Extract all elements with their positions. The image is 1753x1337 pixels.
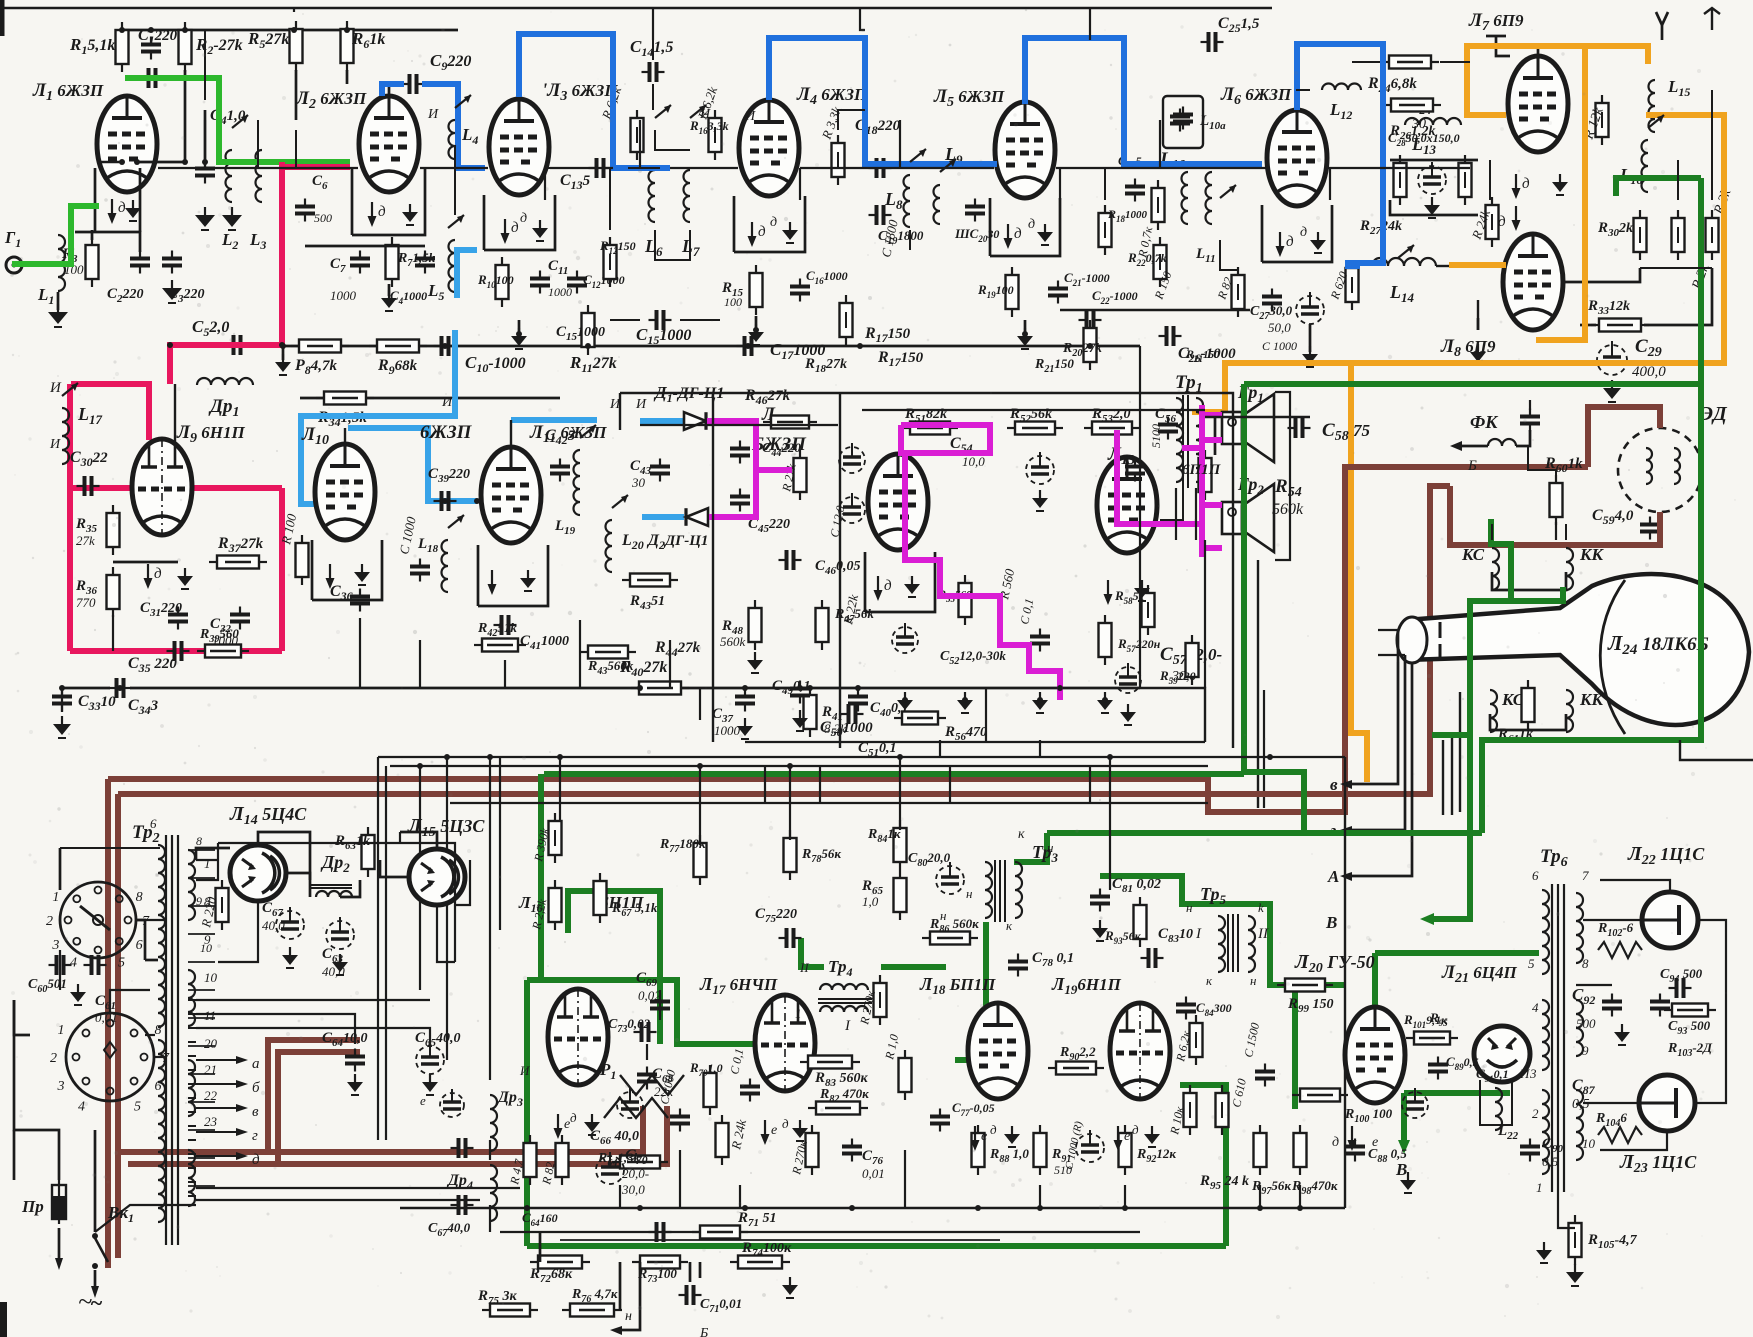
arrow д Л10: [329, 564, 331, 580]
ecap C52: [892, 627, 918, 653]
ground Л3box: [539, 220, 541, 228]
svg-text:КК: КК: [1579, 545, 1605, 564]
capacitor C18: [875, 158, 879, 178]
ground C4: [204, 207, 206, 215]
wire l13conn: [1296, 89, 1310, 91]
wire mid band h700: [1140, 688, 1205, 742]
wire Л14 wiring: [196, 848, 230, 860]
capacitor C60: [55, 955, 59, 975]
tube Л14 5Ц4С: [230, 845, 286, 901]
ground Л1box: [132, 200, 134, 208]
coil L2: [226, 150, 232, 202]
svg-text:В: В: [1325, 913, 1337, 932]
arrow д Л5: [1007, 224, 1009, 240]
svg-text:11: 11: [204, 1008, 216, 1023]
ecap C54: [1026, 456, 1054, 484]
tube Л7 6П9: [1508, 56, 1568, 152]
arrow д Л16: [557, 1114, 559, 1130]
wire v drops y168: [544, 168, 546, 200]
resistor R105: [1569, 1223, 1582, 1257]
svg-text:4: 4: [78, 1099, 85, 1114]
resistor R41: [804, 695, 817, 729]
svg-text:И: И: [635, 397, 647, 412]
wire anode bus y345: [283, 345, 1140, 348]
capacitor C50: [847, 704, 851, 724]
sound section box: [839, 393, 841, 748]
svg-text:е: е: [1124, 1129, 1130, 1144]
arrow д Л11: [491, 570, 493, 586]
wire tr x: [1160, 488, 1183, 520]
svg-text:20: 20: [204, 1036, 218, 1051]
wire Л4 cath gnd: [755, 316, 758, 330]
arrow д Л20: [1351, 1126, 1353, 1142]
resistor R72: [538, 1256, 582, 1269]
svg-text:30: 30: [631, 475, 646, 490]
ground C37g: [744, 718, 746, 726]
ecap e47b: [839, 497, 865, 523]
svg-text:д: д: [770, 215, 777, 230]
wire mid v986: [985, 688, 987, 742]
ecap C63: [326, 921, 354, 949]
svg-text:КС: КС: [1461, 545, 1485, 564]
ground R105: [1574, 1264, 1576, 1272]
wire dgreen bottom: [527, 1243, 1226, 1249]
resistor R101: [1414, 1032, 1450, 1045]
resistor R20: [1084, 328, 1097, 362]
svg-text:д: д: [782, 1116, 789, 1131]
svg-text:22: 22: [204, 1088, 218, 1103]
svg-text:C171000: C171000: [770, 340, 825, 362]
wire brown taps: [268, 1040, 360, 1152]
cathode box Л5: [989, 198, 992, 256]
wire tr2 top link: [196, 859, 218, 861]
svg-text:И: И: [49, 437, 61, 452]
ground g53: [1039, 692, 1041, 700]
ground g52: [904, 692, 906, 700]
wire misc x: [838, 110, 865, 130]
svg-text:0,02: 0,02: [638, 988, 661, 1003]
capacitor C75: [785, 928, 789, 948]
capacitor C32: [230, 613, 250, 617]
wire crimson grid2: [279, 162, 285, 345]
capacitor C42: [550, 465, 570, 469]
wire crimson loop right: [279, 488, 285, 651]
wire tr2 out h2: [196, 1014, 355, 1044]
resistor R66: [549, 888, 562, 922]
svg-text:1: 1: [204, 856, 211, 871]
ground C3: [171, 280, 173, 288]
svg-text:д: д: [1498, 214, 1506, 230]
svg-text:И: И: [519, 1063, 530, 1078]
resistor R62: [216, 888, 229, 922]
wire frame bottom2: [390, 765, 1208, 767]
cathode box Л10: [311, 540, 314, 600]
coil L17: [62, 408, 69, 464]
wire v conn2: [232, 120, 258, 168]
tube Л3 6ЖЗП: [489, 99, 549, 195]
wire brown motor loop: [1588, 407, 1660, 467]
coil L7: [684, 170, 691, 222]
grid stub Л7: [1496, 36, 1510, 56]
svg-text:770: 770: [76, 595, 96, 610]
capacitor C77: [930, 1115, 950, 1119]
transformer Тр5: [1218, 916, 1225, 972]
resistor R51: [910, 422, 950, 435]
wire bot drops: [619, 1185, 621, 1208]
capacitor C27: [1262, 295, 1282, 299]
wire blue hop Л4: [769, 38, 997, 164]
cathode box Л1: [94, 168, 97, 232]
switch П1 arm: [80, 906, 110, 930]
wire crimson loop top: [71, 384, 149, 440]
wire green crt3: [1432, 732, 1470, 738]
wire sound inner top: [862, 409, 1205, 411]
resistor R53: [1092, 422, 1132, 435]
resistor R58: [1142, 593, 1155, 627]
svg-text:5: 5: [118, 956, 125, 971]
resistor R46: [771, 416, 809, 429]
wire ecap: [1309, 324, 1312, 352]
switch П2 center: [104, 1042, 116, 1058]
wire Л22 top: [1600, 880, 1670, 892]
ground Л9: [184, 568, 186, 576]
scan speckle: [568, 206, 571, 209]
svg-text:н: н: [1047, 840, 1053, 855]
wire Л7 anode: [1537, 46, 1540, 56]
svg-text:1,0: 1,0: [862, 894, 879, 909]
arrow д Л8a: [1515, 206, 1517, 222]
resistor R68: [524, 1143, 537, 1177]
capacitor C7: [350, 257, 370, 261]
wire Л3 cath gnd: [518, 320, 521, 334]
wire frame left v: [377, 757, 379, 1140]
svg-text:1: 1: [52, 890, 59, 905]
resistor R23: [1232, 275, 1245, 309]
coil L1: [58, 235, 65, 291]
ground C67: [289, 947, 291, 955]
coil L19: [574, 450, 581, 515]
tube Л2 6ЖЗП: [359, 96, 419, 192]
wire bus1232: [500, 1231, 1140, 1233]
ecap small: [1296, 296, 1324, 324]
resistor R15: [750, 273, 763, 307]
svg-text:в: в: [252, 1104, 259, 1120]
CRT pin А: [1352, 663, 1412, 876]
resistor R60: [1550, 483, 1563, 517]
coil L4: [449, 120, 456, 159]
capacitor C21: [1048, 287, 1068, 291]
svg-text:д: д: [1300, 225, 1307, 240]
resistor R100: [1300, 1089, 1340, 1102]
coil L22: [1495, 1088, 1502, 1130]
wire Л2 cath bus: [305, 245, 425, 248]
svg-text:10: 10: [1582, 1136, 1596, 1151]
svg-text:R527k: R527k: [247, 29, 289, 51]
wire crt coil1: [1492, 572, 1566, 590]
wire fk arrow: [1462, 445, 1488, 448]
wire bus168 l1: [100, 161, 122, 163]
svg-text:50,0: 50,0: [1268, 320, 1291, 335]
transformer Тр4: [820, 984, 868, 990]
svg-text:н: н: [625, 1309, 632, 1324]
wire frame mid: [745, 741, 1205, 743]
wire tr6 sec: [1583, 919, 1642, 921]
wire л14 v: [218, 900, 258, 962]
svg-text:н: н: [1250, 973, 1256, 988]
resistor R14: [709, 118, 722, 152]
ground Л11: [527, 570, 529, 578]
wire cap34 link: [61, 688, 63, 712]
wire Л8 grid: [1477, 318, 1480, 330]
capacitor C19: [875, 205, 879, 225]
resistor R99: [1285, 979, 1325, 992]
tube Л6 6ЖЗП: [1267, 110, 1327, 206]
ground Л7: [1559, 174, 1561, 182]
resistor R43x: [588, 646, 628, 659]
wire orange Л7 right: [1536, 46, 1585, 340]
wire rbot: [539, 1232, 542, 1262]
scan edge bottom-left: [0, 1302, 7, 1337]
svg-text:R1127k: R1127k: [569, 353, 617, 375]
wire c64 c65 g: [354, 1074, 356, 1082]
resistor R83: [808, 1056, 852, 1069]
ecap C67: [276, 911, 304, 939]
capacitor C26: [1165, 326, 1169, 346]
focus coil ФК: [1488, 439, 1516, 446]
svg-text:И: И: [49, 380, 62, 396]
ecap e47: [839, 447, 865, 473]
tube Л17 6Н1П: [755, 995, 815, 1091]
wire magenta Л13 grid: [1117, 430, 1202, 524]
wire mid v 1205: [1204, 540, 1206, 688]
wire bus1208: [400, 1207, 1345, 1209]
capacitor C94: [1675, 978, 1679, 998]
coil L16: [1642, 140, 1649, 192]
transformer Тр2 extra taps: [188, 999, 196, 1001]
wire bot v th: [659, 990, 661, 1020]
coil КК2: [1566, 690, 1573, 732]
svg-text:д: д: [154, 566, 162, 582]
capacitor C76: [842, 1145, 862, 1149]
wire R5 down: [295, 70, 298, 120]
svg-text:560k: 560k: [1272, 501, 1304, 518]
svg-text:6: 6: [136, 938, 143, 953]
wire right edge v: [1747, 651, 1749, 653]
resistor R13: [631, 118, 644, 152]
arrow д Л12: [877, 576, 879, 592]
CRT dashes: [1439, 622, 1442, 638]
wire green crt2: [1511, 587, 1563, 601]
resistor R8: [299, 340, 341, 353]
svg-text:6П1П: 6П1П: [1182, 462, 1222, 478]
resistor R84: [894, 828, 907, 862]
capacitor C22: [1085, 310, 1089, 330]
wire frame v700: [699, 766, 701, 845]
svg-text:д: д: [378, 204, 386, 220]
capacitor C88: [1345, 1145, 1365, 1149]
wire R2 down: [137, 70, 185, 162]
CRT Л24 funnel: [1406, 574, 1749, 725]
coil L5: [449, 240, 456, 292]
coil КС2: [1490, 690, 1497, 732]
ground Л18: [1011, 1126, 1013, 1134]
svg-text:10,0: 10,0: [962, 454, 985, 469]
svg-text:в: в: [1330, 775, 1338, 794]
wire cath1: [91, 230, 94, 240]
ground Л19: [1151, 1126, 1153, 1134]
svg-text:0,01: 0,01: [95, 1010, 118, 1025]
svg-text:д: д: [511, 220, 519, 236]
wire bot arrows: [620, 1262, 640, 1330]
switch Вк1: [95, 1238, 108, 1262]
wire r40 drop: [699, 688, 701, 720]
capacitor C59: [1640, 523, 1660, 527]
taps Тр2: [188, 849, 215, 851]
resistor R56: [902, 712, 938, 725]
switch П1 contacts: [125, 917, 132, 924]
resistor R34: [324, 392, 366, 405]
resistor R9: [377, 340, 419, 353]
wire bus y398: [300, 397, 560, 400]
arrow д Л13: [1107, 580, 1109, 596]
capacitor C78: [1008, 960, 1028, 964]
resistor R73: [640, 1256, 680, 1269]
coil L3: [256, 150, 263, 202]
resistor R29: [1596, 103, 1609, 137]
ground Л4c: [755, 324, 757, 332]
capacitor C12: [567, 277, 587, 281]
wire magenta top stub: [1182, 445, 1202, 451]
svg-text:Б: Б: [699, 1326, 708, 1337]
svg-text:Л196Н1П: Л196Н1П: [1051, 974, 1122, 997]
resistor R52: [1015, 422, 1055, 435]
wire c15conn: [610, 319, 640, 321]
svg-text:6ЖЗП: 6ЖЗП: [420, 422, 473, 443]
resistor R50: [794, 458, 807, 492]
wire l8 gnd: [909, 230, 911, 250]
ground Л10: [361, 564, 363, 572]
svg-text:7: 7: [162, 1051, 170, 1066]
resistor R38: [296, 543, 309, 577]
resistor R63: [362, 835, 375, 869]
ground L2: [231, 207, 233, 215]
capacitor C61: [90, 955, 94, 975]
capacitor C74: [740, 1085, 760, 1089]
resistor R32: [1706, 218, 1719, 252]
resistor R31a: [1672, 218, 1685, 252]
svg-text:k: k: [1258, 900, 1264, 915]
svg-text:КК: КК: [1579, 690, 1605, 709]
svg-text:2: 2: [50, 1051, 57, 1066]
wire dgreen left down: [524, 980, 530, 1246]
svg-text:I: I: [1195, 926, 1202, 942]
ground g57: [1104, 692, 1106, 700]
ground tr6: [1543, 1242, 1545, 1250]
wire crt gnd wires: [1528, 446, 1556, 478]
svg-text:5100: 5100: [1149, 424, 1163, 448]
wire heater diag: [95, 1205, 196, 1232]
capacitor Cj2: [457, 1138, 461, 1158]
ground C60: [77, 984, 79, 992]
wire orange Л7 hop: [1467, 46, 1648, 115]
wire Л9 cath: [113, 561, 178, 564]
capacitor C73: [640, 1022, 644, 1042]
svg-text:R2-27k: R2-27k: [195, 35, 243, 57]
svg-text:9: 9: [1582, 1043, 1589, 1058]
wire blue hop Л6: [1297, 44, 1383, 266]
svg-text:3: 3: [1529, 1066, 1537, 1081]
ground C63: [339, 954, 341, 962]
svg-text:560k: 560k: [720, 634, 746, 649]
coil L8: [903, 175, 910, 227]
vibrator sym: [1163, 96, 1203, 148]
capacitor C31: [168, 613, 188, 617]
wire L1 gnd: [57, 292, 60, 310]
wire Л8 right: [1563, 268, 1640, 282]
ground R74: [789, 1277, 791, 1285]
wire crimson loop bottom: [70, 648, 282, 654]
resistor R7: [386, 245, 399, 279]
wire c28 bus: [1390, 159, 1478, 162]
cap fk: [1520, 415, 1540, 419]
wire orange CRT drop: [1351, 363, 1367, 782]
transformer Тр2 right winding4: [188, 1150, 195, 1206]
wire crt coil2: [1490, 714, 1566, 730]
svg-text:е: е: [771, 1123, 777, 1138]
capacitor C10: [440, 336, 444, 356]
wire dgreen tr3r: [1100, 876, 1295, 1109]
wire l22 frame: [1480, 1080, 1512, 1125]
wire anode3: [547, 167, 570, 169]
svg-text:И: И: [744, 109, 756, 124]
transformer Тр6 right w3: [1576, 1090, 1583, 1160]
capacitor C45: [730, 495, 750, 499]
capacitor C53: [1030, 635, 1050, 639]
tube Л11 6ЖЗП: [481, 447, 541, 543]
ground C92: [1621, 1024, 1623, 1032]
choke Др2 core: [310, 884, 352, 886]
wire top stubs: [652, 8, 654, 40]
wire sw links: [136, 919, 166, 921]
wire green antenna: [12, 206, 99, 264]
coil Lk: [934, 185, 941, 224]
ground e59: [1127, 704, 1129, 712]
cathode box Л6: [1261, 205, 1264, 262]
wire dgreen tr6: [1375, 950, 1539, 956]
wire c26 blk: [1205, 416, 1310, 418]
capacitor C44: [730, 447, 750, 451]
coil L18: [442, 540, 448, 592]
resistor R55v: [959, 583, 972, 617]
wire bottom left net: [14, 1000, 59, 1180]
wire dgreen right vert: [1482, 178, 1701, 833]
arrow д Л9: [147, 564, 149, 580]
wire magenta box C44: [901, 425, 990, 453]
svg-text:А: А: [1327, 867, 1339, 886]
capacitor C40: [848, 695, 868, 699]
resistor R25: [1346, 268, 1359, 302]
ground C28: [1431, 197, 1433, 205]
wire stage1 gnd stub: [282, 346, 285, 360]
group C28: [1394, 163, 1407, 197]
arrow д Л1: [111, 199, 113, 215]
resistor R74: [738, 1256, 782, 1269]
svg-text:к: к: [1018, 827, 1025, 842]
wire Л23 bot: [1600, 1131, 1667, 1150]
capacitor C35x: [173, 641, 177, 661]
arrow д Л2: [371, 202, 373, 218]
svg-text:г: г: [252, 1128, 258, 1144]
